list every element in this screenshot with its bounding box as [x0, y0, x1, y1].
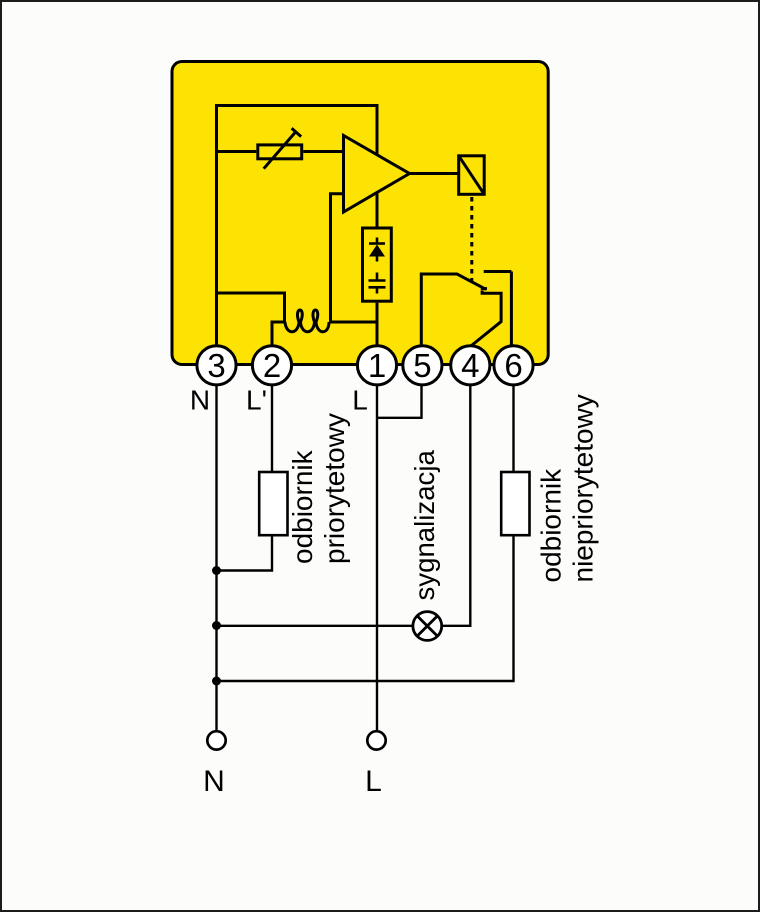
svg-text:L: L — [352, 385, 368, 416]
svg-text:1: 1 — [368, 347, 386, 384]
svg-text:6: 6 — [504, 347, 522, 384]
svg-text:L: L — [365, 765, 382, 798]
svg-text:N: N — [203, 765, 225, 798]
svg-text:3: 3 — [207, 347, 225, 384]
svg-text:L': L' — [246, 385, 267, 416]
svg-text:priorytetowy: priorytetowy — [319, 413, 350, 564]
svg-text:5: 5 — [413, 347, 431, 384]
svg-text:odbiornik: odbiornik — [287, 449, 318, 564]
svg-text:2: 2 — [263, 347, 281, 384]
svg-text:niepriorytetowy: niepriorytetowy — [568, 394, 599, 582]
svg-text:4: 4 — [461, 347, 479, 384]
svg-text:odbiornik: odbiornik — [536, 468, 567, 583]
svg-text:N: N — [190, 385, 210, 416]
svg-text:sygnalizacja: sygnalizacja — [409, 450, 440, 601]
